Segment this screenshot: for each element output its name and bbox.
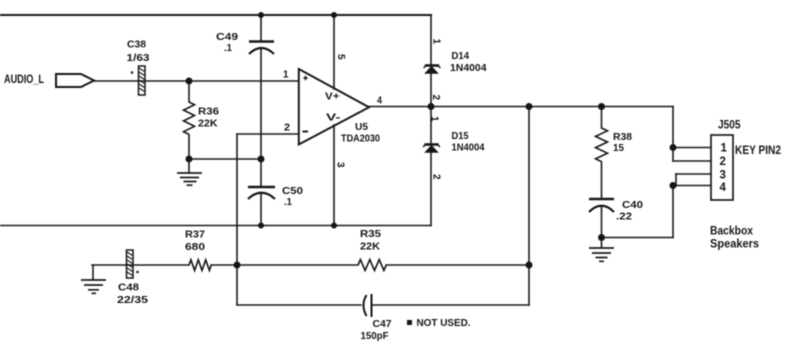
svg-text:KEY PIN2: KEY PIN2 (735, 143, 781, 157)
svg-text:.1: .1 (284, 196, 292, 208)
svg-text:Speakers: Speakers (710, 237, 759, 251)
svg-text:680: 680 (185, 241, 205, 253)
svg-text:1N4004: 1N4004 (452, 142, 485, 154)
svg-text:R36: R36 (198, 106, 219, 118)
svg-text:5: 5 (335, 54, 346, 60)
svg-text:J505: J505 (718, 120, 741, 132)
svg-text:22/35: 22/35 (117, 294, 148, 306)
svg-text:R35: R35 (360, 228, 381, 240)
svg-text:150pF: 150pF (361, 330, 390, 342)
svg-text:.22: .22 (616, 211, 632, 223)
svg-text:.1: .1 (224, 42, 232, 54)
svg-text:C38: C38 (127, 39, 146, 51)
svg-text:1: 1 (721, 143, 728, 155)
svg-text:D15: D15 (452, 130, 469, 142)
svg-text:1/63: 1/63 (127, 52, 150, 64)
svg-text:1: 1 (431, 39, 442, 45)
svg-text:C47: C47 (373, 318, 392, 330)
svg-text:AUDIO_L: AUDIO_L (4, 72, 44, 86)
svg-text:D14: D14 (452, 50, 470, 62)
svg-text:2: 2 (720, 156, 726, 168)
svg-text:1N4004: 1N4004 (450, 62, 487, 74)
svg-text:3: 3 (720, 170, 726, 182)
svg-text:V-: V- (326, 112, 341, 124)
svg-text:1: 1 (283, 69, 289, 81)
svg-text:4: 4 (720, 182, 727, 194)
svg-text:2: 2 (431, 174, 442, 180)
svg-text:V+: V+ (325, 91, 340, 103)
svg-text:TDA2030: TDA2030 (341, 133, 380, 145)
svg-text:Backbox: Backbox (710, 224, 753, 238)
svg-text:1: 1 (429, 116, 440, 122)
svg-text:22K: 22K (360, 241, 380, 253)
svg-text:4: 4 (377, 95, 382, 107)
svg-text:15: 15 (613, 142, 624, 154)
svg-text:2: 2 (284, 122, 290, 134)
svg-text:U5: U5 (355, 121, 368, 133)
svg-text:3: 3 (335, 162, 346, 168)
svg-text:22K: 22K (198, 118, 218, 130)
svg-text:R37: R37 (185, 229, 205, 241)
svg-text:C40: C40 (622, 199, 643, 211)
svg-text:2: 2 (430, 95, 441, 101)
svg-text:C48: C48 (118, 282, 139, 294)
svg-text:NOT USED.: NOT USED. (417, 317, 471, 329)
